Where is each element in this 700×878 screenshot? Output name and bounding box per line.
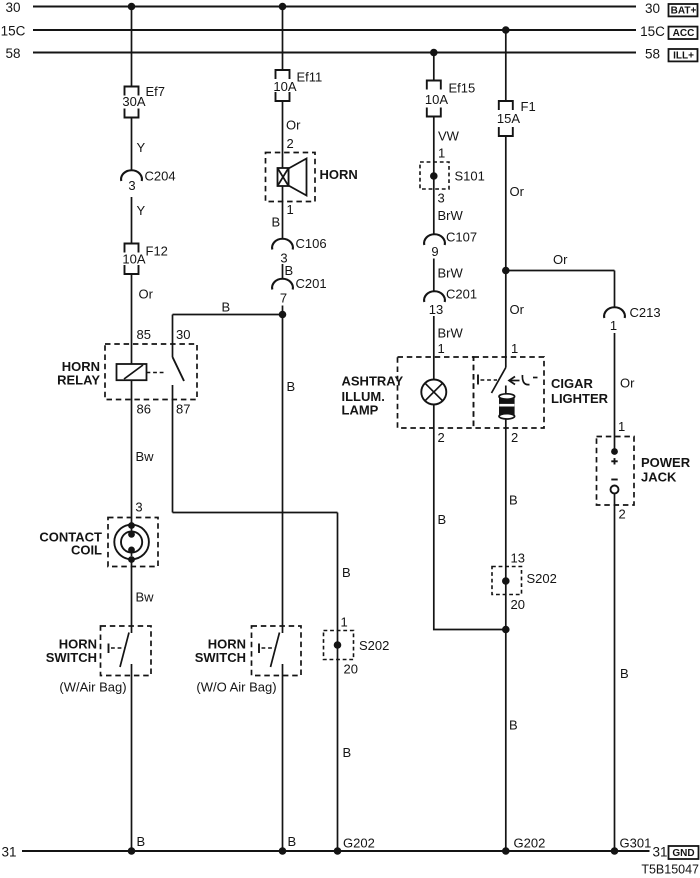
svg-text:30: 30 xyxy=(645,1,660,16)
svg-text:G202: G202 xyxy=(514,836,546,851)
wire bus30 to fuse Ef11 xyxy=(282,7,284,71)
relay pin 30 wire from B feed xyxy=(172,315,174,358)
svg-text:B: B xyxy=(222,300,231,315)
wire coil to contact coil, label Bw xyxy=(131,380,133,525)
svg-text:SWITCH: SWITCH xyxy=(195,650,246,665)
junction with ashtray lamp return xyxy=(502,626,510,634)
svg-text:B: B xyxy=(342,565,351,580)
ground junction col2 xyxy=(279,847,287,855)
stub to heating element xyxy=(505,386,507,396)
ashtray illumination lamp dashed box xyxy=(398,357,474,428)
svg-text:CIGAR: CIGAR xyxy=(551,376,594,391)
tag box GND xyxy=(669,846,699,859)
svg-text:10A: 10A xyxy=(122,252,145,267)
wire C106 to C201, label B xyxy=(282,264,284,280)
svg-text:GND: GND xyxy=(672,848,694,859)
connector C201 pin 7 xyxy=(272,279,293,290)
switch actuator bar and dashes xyxy=(258,644,260,654)
cigar lighter dashed box xyxy=(474,357,545,428)
svg-text:2: 2 xyxy=(438,430,445,445)
svg-text:B: B xyxy=(137,834,146,849)
svg-text:B: B xyxy=(285,263,294,278)
contact coil wire stubs and dots xyxy=(131,528,133,535)
svg-text:B: B xyxy=(620,666,629,681)
svg-text:LIGHTER: LIGHTER xyxy=(551,391,609,406)
svg-text:BAT+: BAT+ xyxy=(671,6,697,17)
junction on bus 30 xyxy=(279,3,287,11)
svg-text:1: 1 xyxy=(438,341,445,356)
svg-text:1: 1 xyxy=(341,615,348,630)
horn relay dashed box xyxy=(105,344,197,400)
svg-text:LAMP: LAMP xyxy=(342,403,379,418)
svg-text:Or: Or xyxy=(510,302,525,317)
svg-text:F12: F12 xyxy=(146,244,168,259)
vertical wire to ground xyxy=(337,513,339,852)
svg-text:Or: Or xyxy=(620,376,635,391)
svg-text:58: 58 xyxy=(645,47,660,62)
svg-text:10A: 10A xyxy=(425,92,448,107)
horizontal wire from relay pin 87 xyxy=(173,512,338,514)
relay pin 87 wire down xyxy=(172,385,174,513)
svg-text:9: 9 xyxy=(431,244,438,259)
svg-text:C201: C201 xyxy=(446,287,477,302)
connector C106 pin 3 xyxy=(272,239,293,250)
cigar lighter actuator bar and dashes xyxy=(477,375,479,385)
power jack - terminal xyxy=(611,479,617,481)
svg-text:Ef11: Ef11 xyxy=(297,70,323,85)
svg-text:B: B xyxy=(287,379,296,394)
wire cigar lighter to ground, label B xyxy=(505,419,507,851)
svg-text:Ef7: Ef7 xyxy=(146,84,166,99)
svg-text:Or: Or xyxy=(510,184,525,199)
svg-text:F1: F1 xyxy=(521,99,536,114)
wire C201 down to horn switch xyxy=(282,306,284,634)
svg-text:BrW: BrW xyxy=(438,266,464,281)
svg-text:C204: C204 xyxy=(145,169,176,184)
wire switch to ground xyxy=(131,664,133,851)
switch blade xyxy=(120,633,129,668)
wire horn to C106, label B xyxy=(282,186,284,240)
svg-text:B: B xyxy=(288,834,297,849)
svg-text:VW: VW xyxy=(438,129,460,144)
svg-text:1: 1 xyxy=(438,146,445,161)
tag box BAT+ xyxy=(669,4,698,16)
fuse Ef7 30A xyxy=(125,87,139,96)
bus line 30 (BAT+) xyxy=(33,6,636,8)
connector C204 pin 3 xyxy=(121,170,142,181)
wire lamp down and over to cigar lighter ground wire, label B xyxy=(434,405,506,630)
splice S101 xyxy=(420,162,449,189)
ground junction xyxy=(334,847,342,855)
horizontal wire to C213, label Or xyxy=(506,270,615,272)
svg-text:ASHTRAY: ASHTRAY xyxy=(342,374,404,389)
svg-text:(W/Air Bag): (W/Air Bag) xyxy=(59,680,126,695)
relay coil xyxy=(117,364,147,380)
svg-text:S202: S202 xyxy=(527,571,557,586)
ground junction col5 xyxy=(611,847,619,855)
svg-text:3: 3 xyxy=(135,500,142,515)
svg-text:B: B xyxy=(272,215,281,230)
wire C213 to power jack, label Or xyxy=(614,333,616,452)
fuse F1 15A xyxy=(499,101,513,110)
svg-text:Y: Y xyxy=(137,140,146,155)
svg-text:C107: C107 xyxy=(446,230,477,245)
cigar lighter heating element barrel xyxy=(499,397,515,417)
svg-text:13: 13 xyxy=(511,551,525,566)
horn switch (W/O Air Bag) dashed box xyxy=(252,626,302,676)
svg-text:B: B xyxy=(438,512,447,527)
svg-text:1: 1 xyxy=(610,318,617,333)
junction with relay feed xyxy=(279,311,287,319)
wire bus58 to fuse Ef15 xyxy=(433,53,435,81)
svg-text:87: 87 xyxy=(176,402,190,417)
svg-text:Or: Or xyxy=(286,118,301,133)
horn dashed box xyxy=(266,153,316,202)
wire switch to ground xyxy=(282,664,284,851)
junction on bus 30 xyxy=(128,3,136,11)
svg-text:1: 1 xyxy=(511,341,518,356)
svg-text:S202: S202 xyxy=(359,638,389,653)
connector C213 pin 1 xyxy=(604,307,625,318)
bus line 15C (ACC) xyxy=(33,29,636,31)
cigar lighter eject arrow xyxy=(509,380,520,382)
svg-text:30A: 30A xyxy=(122,94,145,109)
svg-text:ACC: ACC xyxy=(673,28,695,39)
svg-text:C106: C106 xyxy=(296,236,327,251)
tag box ACC xyxy=(669,27,698,39)
fuse F12 10A xyxy=(125,244,139,253)
contact coil rings xyxy=(114,525,149,560)
svg-text:Or: Or xyxy=(139,287,154,302)
wire bus30 to fuse Ef7 xyxy=(131,7,133,87)
switch blade xyxy=(271,633,280,668)
svg-text:15A: 15A xyxy=(497,111,520,126)
svg-text:10A: 10A xyxy=(273,79,296,94)
svg-text:13: 13 xyxy=(429,302,443,317)
svg-text:20: 20 xyxy=(344,662,358,677)
power jack dashed box xyxy=(597,437,635,506)
relay contact blade xyxy=(173,357,185,381)
svg-text:ILL+: ILL+ xyxy=(673,51,694,62)
svg-text:58: 58 xyxy=(5,46,20,61)
svg-text:20: 20 xyxy=(511,597,525,612)
svg-text:G301: G301 xyxy=(620,836,652,851)
wire F12 to relay coil, label Or xyxy=(131,274,133,364)
svg-text:HORN: HORN xyxy=(320,167,358,182)
horn switch (W/Air Bag) dashed box xyxy=(101,626,152,676)
svg-text:30: 30 xyxy=(5,0,20,15)
svg-text:T5B15047: T5B15047 xyxy=(641,863,699,877)
svg-text:C201: C201 xyxy=(296,276,327,291)
svg-text:RELAY: RELAY xyxy=(57,373,100,388)
wire Ef11 to horn, labels Or and pin 2 xyxy=(282,101,284,168)
fuse Ef15 10A xyxy=(427,81,441,90)
svg-text:BrW: BrW xyxy=(438,208,464,223)
svg-text:B: B xyxy=(343,745,352,760)
wire F1 to cigar lighter, label Or xyxy=(505,136,507,368)
svg-text:3: 3 xyxy=(128,178,135,193)
wire Ef7 to C204, label Y xyxy=(131,118,133,171)
svg-text:2: 2 xyxy=(287,136,294,151)
svg-text:Or: Or xyxy=(553,252,568,267)
ground junction col1 xyxy=(128,847,136,855)
svg-text:(W/O Air Bag): (W/O Air Bag) xyxy=(196,680,276,695)
svg-text:3: 3 xyxy=(438,191,445,206)
bus line 58 (ILL+) xyxy=(33,52,636,54)
tag box ILL+ xyxy=(669,49,698,61)
fuse Ef11 10A xyxy=(276,70,290,79)
junction to power jack feed xyxy=(502,267,510,275)
svg-text:SWITCH: SWITCH xyxy=(46,650,97,665)
wire Ef15 to C107, labels VW, pin 1 xyxy=(433,117,435,234)
svg-text:15C: 15C xyxy=(1,24,26,39)
svg-text:B: B xyxy=(509,718,518,733)
svg-text:B: B xyxy=(509,493,518,508)
svg-text:Bw: Bw xyxy=(136,590,155,605)
relay coil-contact dashed link xyxy=(147,372,165,374)
svg-text:C213: C213 xyxy=(630,305,661,320)
junction on bus 15C xyxy=(502,26,510,34)
svg-text:BrW: BrW xyxy=(438,326,464,341)
ground junction col4 xyxy=(502,847,510,855)
svg-text:1: 1 xyxy=(618,419,625,434)
wire C201 to lamp, labels BrW, pin 1 xyxy=(433,316,435,380)
wire C204 to fuse F12, label Y xyxy=(131,197,133,244)
horizontal wire to relay pin 30, label B xyxy=(173,314,283,316)
wire C107 to C201, label BrW xyxy=(433,259,435,291)
wire power jack to ground, pin 2 xyxy=(614,494,616,852)
svg-text:2: 2 xyxy=(511,430,518,445)
svg-text:15C: 15C xyxy=(640,24,665,39)
svg-text:2: 2 xyxy=(619,507,626,522)
svg-text:85: 85 xyxy=(137,327,151,342)
splice S202 xyxy=(492,567,522,595)
switch actuator bar and dashes xyxy=(108,644,110,654)
svg-text:POWER: POWER xyxy=(641,455,691,470)
svg-text:31: 31 xyxy=(653,845,668,860)
contact coil dashed box xyxy=(108,518,158,567)
svg-text:COIL: COIL xyxy=(71,543,102,558)
svg-text:31: 31 xyxy=(1,845,16,860)
svg-text:86: 86 xyxy=(137,402,151,417)
wire contact coil to horn switch, label Bw xyxy=(131,560,133,634)
svg-text:7: 7 xyxy=(280,291,287,306)
svg-text:30: 30 xyxy=(176,327,190,342)
svg-text:Y: Y xyxy=(137,203,146,218)
junction on bus 58 xyxy=(430,49,438,57)
svg-text:1: 1 xyxy=(287,202,294,217)
horn speaker symbol xyxy=(289,159,307,196)
wire bus15C to fuse F1 xyxy=(505,30,507,101)
svg-text:Bw: Bw xyxy=(136,449,155,464)
connector C201 pin 13 xyxy=(424,291,445,302)
bus line 31 (GND) xyxy=(22,850,650,852)
svg-text:JACK: JACK xyxy=(641,470,677,485)
svg-text:S101: S101 xyxy=(455,169,485,184)
cigar lighter spring hook xyxy=(522,375,529,385)
connector C107 pin 9 xyxy=(424,234,445,245)
svg-text:G202: G202 xyxy=(343,836,375,851)
cigar lighter blade xyxy=(492,368,506,394)
power jack + terminal xyxy=(611,448,618,455)
lamp symbol xyxy=(421,380,446,405)
svg-text:Ef15: Ef15 xyxy=(449,81,476,96)
splice S202 xyxy=(324,631,354,660)
wire corner down to C213 xyxy=(614,271,616,308)
